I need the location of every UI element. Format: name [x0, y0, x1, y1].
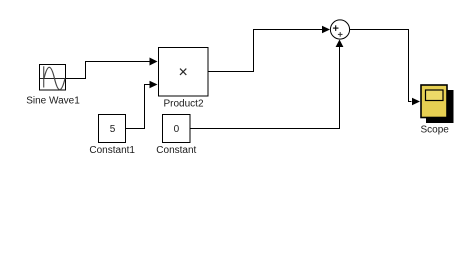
svg-text:5: 5	[110, 124, 116, 135]
block Constant	[163, 115, 191, 143]
wire Sine Wave1 to Product2 input 1	[66, 62, 151, 79]
block Sine Wave1	[40, 65, 66, 91]
svg-text:Product2: Product2	[163, 99, 203, 110]
svg-text:0: 0	[174, 124, 180, 135]
svg-text:Scope: Scope	[421, 125, 450, 136]
wire Constant to Sum input 2	[190, 47, 340, 129]
block Scope	[421, 85, 454, 123]
svg-text:Sine Wave1: Sine Wave1	[26, 96, 80, 107]
svg-text:Constant1: Constant1	[89, 145, 135, 156]
block Constant1	[99, 115, 126, 143]
wire Sum to Scope	[350, 30, 412, 102]
wire Constant1 to Product2 input 2	[126, 85, 151, 129]
block Sum	[330, 20, 349, 39]
block Product2	[159, 48, 209, 97]
wire Product2 to Sum input 1	[208, 30, 322, 72]
svg-text:Constant: Constant	[156, 145, 196, 156]
